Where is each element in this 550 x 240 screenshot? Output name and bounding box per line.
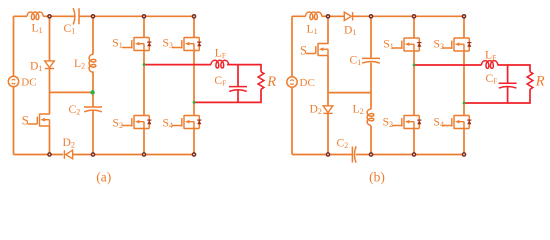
svg-text:C2: C2 (337, 136, 349, 150)
svg-text:L1: L1 (32, 22, 43, 36)
svg-text:R: R (266, 74, 276, 90)
svg-text:R: R (535, 74, 545, 90)
svg-text:S1: S1 (112, 36, 122, 50)
svg-text:S3: S3 (163, 37, 173, 51)
svg-text:D2: D2 (310, 103, 322, 117)
svg-text:S3: S3 (434, 37, 444, 51)
svg-text:S4: S4 (434, 116, 444, 130)
svg-text:DC: DC (300, 77, 315, 89)
svg-text:L2: L2 (353, 103, 364, 117)
svg-text:S: S (22, 112, 29, 127)
svg-text:S2: S2 (383, 116, 393, 130)
svg-text:CF: CF (486, 72, 498, 86)
svg-text:CF: CF (214, 74, 226, 88)
svg-text:D1: D1 (344, 23, 356, 37)
svg-text:C2: C2 (69, 103, 81, 117)
svg-text:(b): (b) (369, 169, 385, 184)
svg-text:L1: L1 (307, 23, 318, 37)
svg-text:S: S (300, 43, 307, 57)
svg-text:D1: D1 (30, 60, 42, 74)
svg-text:LF: LF (485, 49, 496, 63)
svg-text:S1: S1 (383, 37, 393, 51)
svg-text:L2: L2 (74, 57, 85, 71)
svg-text:(a): (a) (96, 169, 111, 184)
svg-text:S2: S2 (113, 116, 123, 129)
svg-text:C1: C1 (350, 54, 362, 67)
svg-text:D2: D2 (63, 136, 75, 150)
svg-text:S4: S4 (163, 116, 173, 129)
svg-text:LF: LF (215, 46, 226, 60)
svg-text:DC: DC (21, 77, 36, 89)
